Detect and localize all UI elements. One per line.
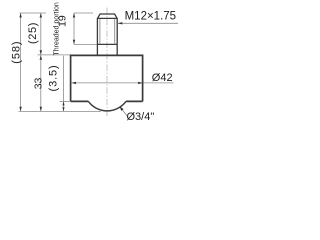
- svg-text:Threaded portion: Threaded portion: [53, 2, 60, 55]
- svg-text:Ø42: Ø42: [152, 72, 173, 84]
- svg-text:Ø3/4": Ø3/4": [127, 111, 155, 123]
- svg-text:M12×1.75: M12×1.75: [125, 10, 176, 22]
- svg-text:(58): (58): [11, 41, 23, 64]
- svg-text:33: 33: [32, 77, 44, 89]
- svg-text:(3.5): (3.5): [47, 64, 59, 91]
- svg-text:(25): (25): [27, 22, 39, 44]
